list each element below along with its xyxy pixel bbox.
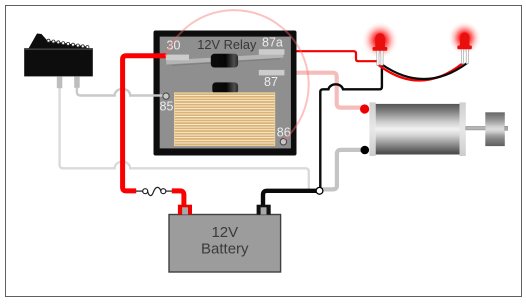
relay terminal 85 xyxy=(163,93,169,99)
svg-text:12V: 12V xyxy=(211,224,238,241)
wire stub into relay 85 xyxy=(153,94,164,96)
wire: junction to motor negative (gray) xyxy=(321,150,364,190)
wire: relay 87a to LED1 anode (thin red) xyxy=(285,51,378,61)
LED D1 glow xyxy=(363,22,398,58)
LED D2 glow xyxy=(449,22,481,55)
relay contact upper xyxy=(211,54,238,68)
motor - terminal xyxy=(361,146,370,155)
motor M1 xyxy=(369,102,507,156)
relay terminal bar 87 xyxy=(259,70,285,76)
relay terminal 86 xyxy=(280,139,286,145)
LED D2 body xyxy=(457,32,472,49)
battery + terminal xyxy=(178,205,192,215)
svg-text:87: 87 xyxy=(264,75,278,89)
LED D1 legs xyxy=(377,49,383,66)
relay armature (30 to 87a) xyxy=(166,56,283,66)
wire: relay 87 to motor positive (pink) xyxy=(285,73,363,108)
svg-text:85: 85 xyxy=(160,100,174,114)
wire: switch pin2 to relay 85 (light gray, hops over red) xyxy=(77,86,164,96)
wire: battery positive via fuse to relay 30 (thick red) xyxy=(123,56,166,191)
wire: battery negative to junction (black) xyxy=(263,191,317,205)
wire: switch pin1 to bottom junction (light gray, hops over red) xyxy=(60,86,309,190)
relay terminal bar 87a xyxy=(259,49,285,55)
switch S1 (rocker) xyxy=(24,34,93,89)
wire: LED1 anode to LED2 anode (red curve) xyxy=(378,64,463,81)
fuse F1 xyxy=(136,187,172,195)
svg-text:87a: 87a xyxy=(262,35,283,49)
svg-text:Battery: Battery xyxy=(201,240,249,257)
relay K1 body xyxy=(154,31,297,156)
motor + terminal xyxy=(360,104,369,113)
battery B1 xyxy=(169,215,281,273)
wire: LED1 cathode to LED2 cathode (black curve) xyxy=(382,63,467,79)
battery - terminal xyxy=(257,205,271,215)
relay contact lower xyxy=(212,82,238,93)
svg-text:86: 86 xyxy=(277,126,291,140)
relay coil xyxy=(175,93,275,146)
relay labels xyxy=(160,35,291,139)
LED D2 legs xyxy=(461,48,468,63)
annotation highlight arc around relay xyxy=(165,10,308,140)
svg-text:12V Relay: 12V Relay xyxy=(197,37,257,52)
wire: LED cathodes to junction (black, hops over pink) xyxy=(320,64,382,189)
relay terminal bar 30 xyxy=(166,55,189,61)
node junction (battery-/LED-/motor-/switch common) xyxy=(316,187,323,194)
red wire stub into relay 30 xyxy=(153,53,167,58)
LED D1 body xyxy=(373,33,388,51)
